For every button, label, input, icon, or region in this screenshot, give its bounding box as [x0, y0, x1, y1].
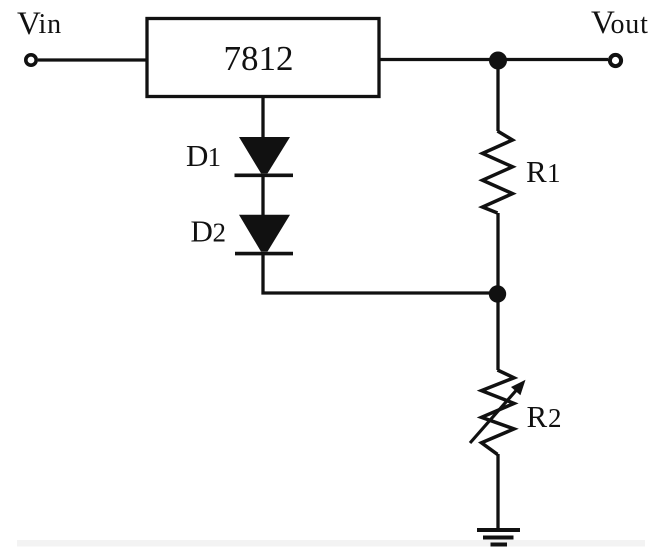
svg-text:in: in: [39, 9, 62, 40]
svg-text:R: R: [526, 154, 547, 189]
svg-text:2: 2: [213, 218, 227, 248]
svg-text:D: D: [191, 214, 213, 249]
svg-text:1: 1: [208, 142, 222, 172]
svg-text:V: V: [17, 6, 41, 42]
svg-text:out: out: [611, 9, 649, 40]
svg-text:2: 2: [548, 403, 562, 433]
svg-text:D: D: [186, 138, 208, 173]
svg-text:1: 1: [547, 158, 561, 188]
svg-text:7812: 7812: [224, 39, 294, 78]
svg-text:R: R: [527, 399, 548, 434]
